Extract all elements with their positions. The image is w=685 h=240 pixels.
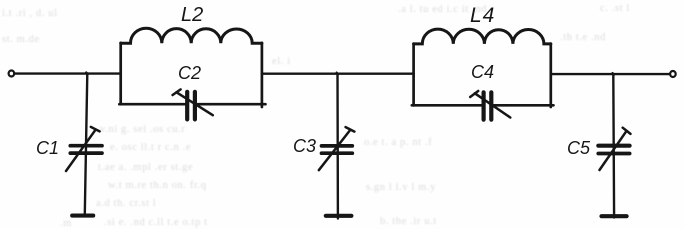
ground bar under C1 (72, 214, 93, 218)
svg-text:st. m.de: st. m.de (2, 34, 40, 45)
wire output rail (551, 73, 670, 75)
capacitor C4 (variable) (470, 91, 510, 120)
svg-text:C2: C2 (178, 63, 201, 83)
svg-text:C5: C5 (567, 138, 591, 158)
wire C3 branch (336, 74, 339, 219)
svg-text:w.t m.re th.n on. fr.q: w.t m.re th.n on. fr.q (108, 180, 207, 191)
terminal IN (9, 71, 15, 77)
tank box 2 bottom wire (through C4) (412, 104, 554, 107)
tank box 2 left edge (412, 44, 415, 106)
wire C1 branch (85, 74, 88, 214)
svg-text:c. .st l: c. .st l (600, 3, 630, 14)
svg-text:C1: C1 (36, 138, 59, 158)
capacitor C1 (variable) (66, 127, 102, 171)
capacitor C5 (variable) (598, 128, 630, 170)
svg-text:s.gn l l.v l m.y: s.gn l l.v l m.y (366, 182, 436, 193)
svg-text:a.d th. cr.st l: a.d th. cr.st l (96, 198, 156, 209)
capacitor C2 (variable) (173, 89, 213, 119)
svg-text:e. osc ll.t r c.n .e: e. osc ll.t r c.n .e (110, 142, 191, 153)
node junction C1/rail (86, 72, 88, 74)
node junction C3/rail (337, 73, 339, 75)
svg-text:C3: C3 (293, 136, 316, 156)
svg-text:.m: .m (60, 218, 72, 229)
wire input rail (15, 72, 121, 74)
tank box 1 right edge (261, 43, 264, 107)
svg-text:b. the .ir u.t: b. the .ir u.t (380, 216, 437, 227)
svg-text:t.ae a. .mpl .er st.ge: t.ae a. .mpl .er st.ge (98, 162, 193, 173)
svg-text:.si e. .nd c.ll t.e o.tp t: .si e. .nd c.ll t.e o.tp t (104, 217, 208, 228)
svg-text:v.ni g. sel .os cu.r: v.ni g. sel .os cu.r (100, 124, 185, 135)
inductor L2 (121, 28, 262, 43)
inductor L4 (414, 29, 551, 44)
ground bar under C3 (326, 214, 352, 218)
wire mid rail (262, 72, 414, 74)
tank box 1 left edge (119, 43, 122, 104)
ground bar under C5 (602, 214, 627, 218)
tank box 2 right edge (549, 44, 552, 107)
tank box 1 bottom wire (through C2) (119, 103, 265, 106)
svg-text:L2: L2 (181, 4, 203, 26)
svg-text:L4: L4 (470, 4, 495, 27)
node junction C5/rail (613, 73, 615, 75)
svg-text:o.e t. a p. nt .f: o.e t. a p. nt .f (364, 137, 432, 148)
svg-text:C4: C4 (471, 62, 494, 82)
svg-text:i.t .ri , d. ul: i.t .ri , d. ul (2, 8, 58, 19)
svg-text:el. i: el. i (272, 56, 291, 67)
wire C5 branch (612, 74, 615, 217)
svg-text:.th t.e .nd: .th t.e .nd (560, 32, 606, 43)
capacitor C3 (variable) (319, 127, 355, 170)
terminal OUT (670, 71, 676, 77)
